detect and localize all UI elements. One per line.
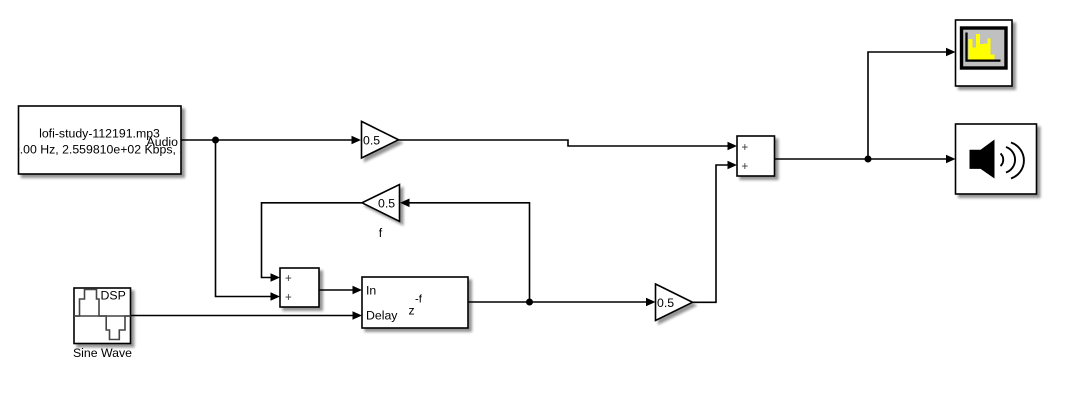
junction node audio xyxy=(212,137,219,144)
sine wave block xyxy=(74,288,131,344)
spectrum analyzer block xyxy=(956,20,1013,86)
source block From Multimedia File xyxy=(0,106,214,174)
wire gain Gf output to sum S1 upper input xyxy=(262,203,363,282)
svg-text:-f: -f xyxy=(415,294,423,306)
svg-text:DSP: DSP xyxy=(101,289,126,303)
svg-text:+: + xyxy=(742,142,749,154)
svg-text:+: + xyxy=(742,161,749,173)
junction node delay out xyxy=(526,299,533,306)
delay block z^-f xyxy=(362,277,468,328)
label f xyxy=(379,226,383,240)
label Sine Wave xyxy=(73,346,132,360)
svg-text:f: f xyxy=(379,226,383,240)
wire junction to spectrum analyzer xyxy=(868,48,956,159)
wire gain G2 to sum S2 input 2 xyxy=(693,161,738,303)
svg-text:0.5: 0.5 xyxy=(378,196,395,210)
svg-text:Delay: Delay xyxy=(366,309,398,323)
svg-text:lofi-study-112191.mp3: lofi-study-112191.mp3 xyxy=(39,127,160,141)
svg-text:0.5: 0.5 xyxy=(363,133,380,147)
wire feedback from junction up into gain Gf xyxy=(400,199,530,303)
speaker block Audio Device Writer xyxy=(956,124,1037,194)
svg-text:Sine Wave: Sine Wave xyxy=(73,346,132,360)
wire sum S2 to speaker xyxy=(775,155,956,164)
svg-text:Audio: Audio xyxy=(147,135,179,149)
junction node output xyxy=(865,156,872,163)
port label Audio xyxy=(147,135,179,149)
svg-text:In: In xyxy=(366,284,376,298)
sum S1 xyxy=(280,268,319,307)
gain Gf 0.5 (left-pointing) xyxy=(362,185,400,222)
svg-text:+: + xyxy=(285,273,292,285)
wire junction to sum S1 lower input xyxy=(216,140,281,301)
wire delay output to gain G2 xyxy=(468,298,656,307)
wire source to gain G1 xyxy=(181,136,361,145)
wire sine wave to delay Delay input xyxy=(131,311,363,320)
svg-text:0.5: 0.5 xyxy=(657,296,674,310)
gain G1 0.5 xyxy=(362,121,399,158)
sum S2 xyxy=(737,136,775,176)
svg-text:+: + xyxy=(285,292,292,304)
gain G2 0.5 xyxy=(656,284,693,321)
wire sum S1 to delay In xyxy=(319,286,362,295)
wire gain G1 to sum S2 input 1 xyxy=(399,140,738,150)
svg-text:z: z xyxy=(409,304,415,318)
